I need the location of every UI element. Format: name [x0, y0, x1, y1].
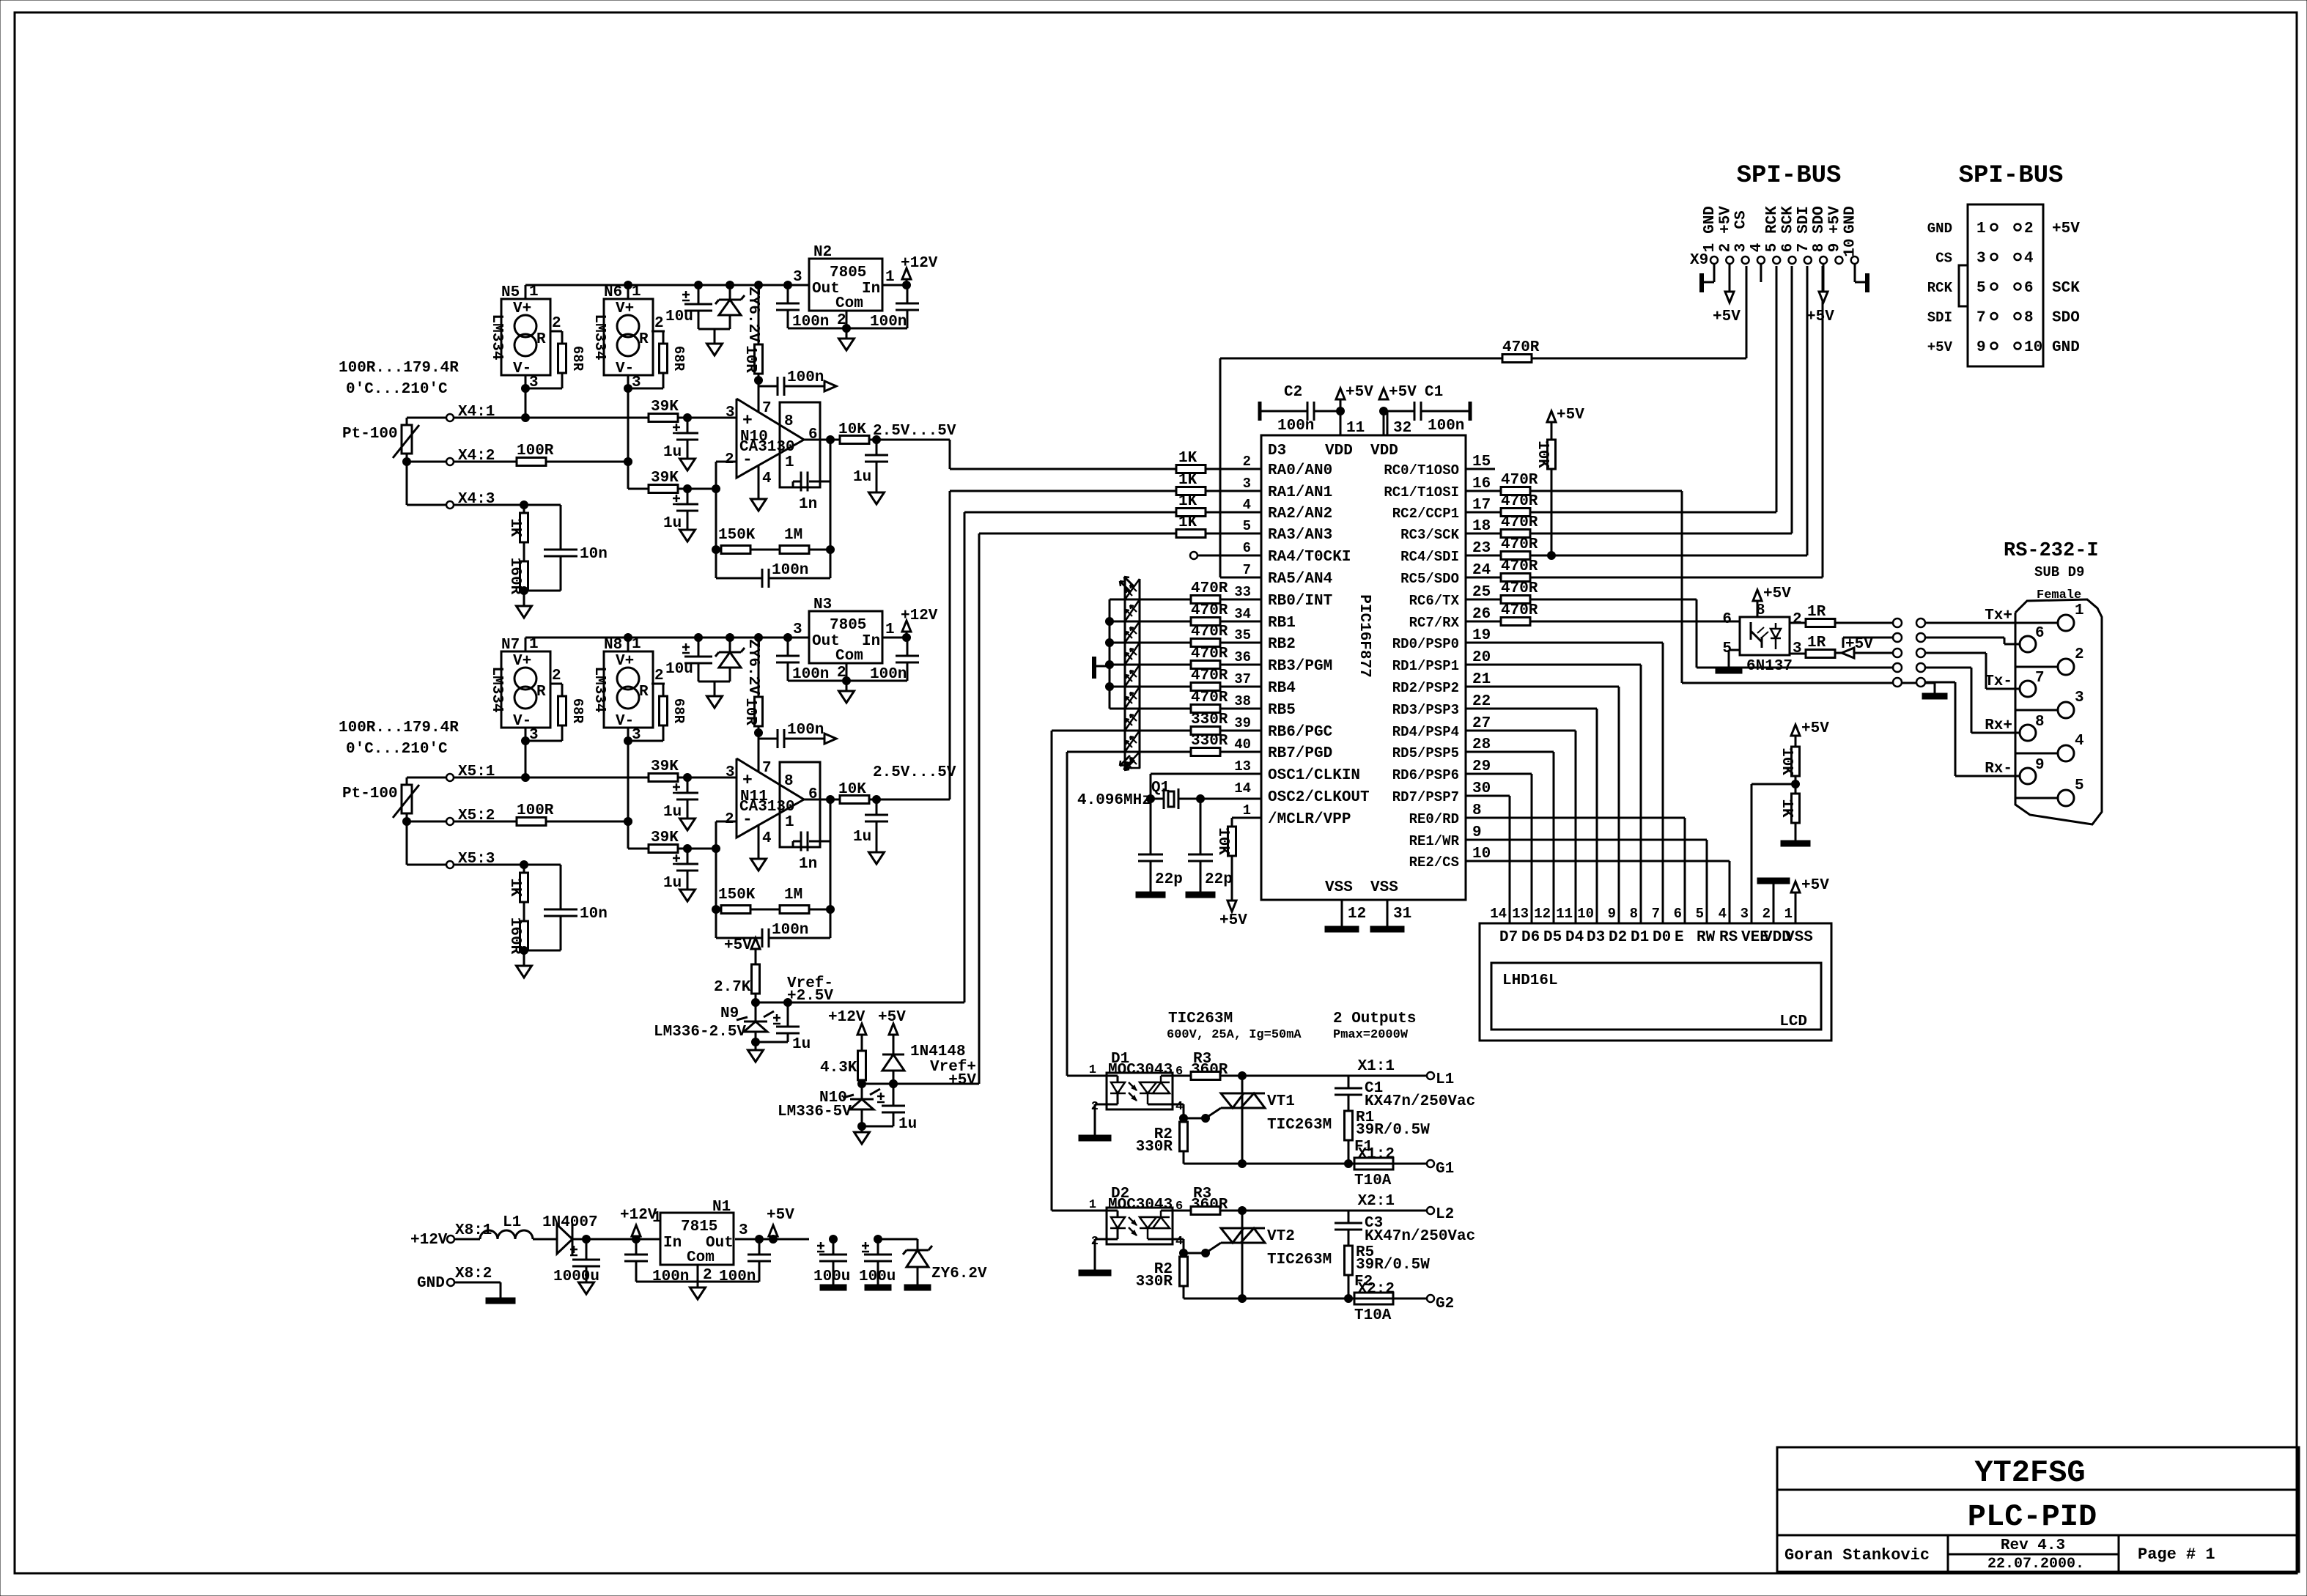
diode N10 LM336-5V: [850, 1098, 874, 1101]
svg-text:+: +: [742, 771, 753, 790]
capacitor 100u #2: [874, 1235, 882, 1244]
D2 light arrows: [1129, 1217, 1137, 1225]
power +5V down (X9 pin2): [1729, 264, 1731, 292]
svg-text:470R: 470R: [1501, 536, 1538, 553]
wire VEE: [1751, 784, 1753, 923]
terminal X1:2: [1427, 1160, 1434, 1167]
svg-text:R: R: [536, 684, 546, 701]
resistor 470R (RB5): [1191, 705, 1220, 713]
svg-text:5: 5: [1243, 518, 1251, 534]
ground: [579, 1282, 594, 1294]
D2 internal LED: [1107, 1210, 1118, 1212]
resistor 1K (RA2): [1176, 509, 1206, 517]
svg-text:TIC263M: TIC263M: [1168, 1011, 1233, 1027]
svg-text:L1: L1: [1436, 1071, 1454, 1088]
channel head X5: [525, 637, 907, 639]
svg-text:CS: CS: [1733, 210, 1750, 229]
svg-text:N9: N9: [720, 1005, 739, 1022]
resistor 2.7K: [752, 964, 760, 994]
ground bar (VDD pin2): [1773, 884, 1775, 923]
resistor 39K (+ input): [649, 774, 678, 782]
svg-text:6: 6: [2035, 625, 2045, 642]
svg-text:1: 1: [529, 284, 539, 300]
svg-text:SDI: SDI: [1927, 310, 1952, 326]
svg-text:8: 8: [2035, 714, 2045, 731]
svg-text:RB3/PGM: RB3/PGM: [1268, 658, 1332, 675]
svg-text:4: 4: [1243, 497, 1251, 513]
diode N9 LM336-2.5V: [744, 1021, 767, 1023]
svg-text:VSS: VSS: [1370, 879, 1398, 896]
svg-text:SCK: SCK: [2052, 280, 2080, 297]
ground (D1 pin2): [1095, 1104, 1107, 1106]
wire RC6 to RS232 jumper row4: [1530, 599, 1697, 601]
svg-text:+5V: +5V: [1826, 206, 1843, 234]
svg-text:L1: L1: [503, 1214, 521, 1231]
svg-text:11: 11: [1346, 420, 1365, 437]
svg-text:L2: L2: [1436, 1206, 1454, 1223]
capacitor C3 KX47n/250Vac: [1348, 1211, 1350, 1223]
svg-text:1: 1: [1702, 243, 1719, 253]
wire RC2 to SPI RCK: [1530, 511, 1776, 514]
svg-text:D6: D6: [1521, 929, 1540, 946]
svg-text:E: E: [1675, 929, 1684, 946]
op-amp N10 CA3130: [737, 399, 804, 478]
crystal Q1 4.096MHz: [1151, 773, 1261, 775]
svg-text:10n: 10n: [580, 906, 608, 923]
resistor 10K pullup (RC4): [1547, 411, 1556, 422]
svg-text:6: 6: [2024, 280, 2034, 297]
svg-text:7: 7: [762, 760, 772, 777]
svg-text:T10A: T10A: [1354, 1172, 1392, 1189]
svg-text:C2: C2: [1284, 384, 1302, 401]
svg-text:V+: V+: [616, 300, 634, 317]
terminal X4:1: [407, 417, 446, 419]
svg-text:14: 14: [1490, 906, 1507, 922]
bottom rail: [1184, 1298, 1354, 1300]
svg-text:R: R: [639, 331, 649, 348]
svg-text:+5V: +5V: [724, 937, 752, 954]
svg-text:+5V: +5V: [1713, 309, 1741, 325]
ic 6N137 optocoupler: [1740, 617, 1790, 655]
svg-text:GND: GND: [1927, 221, 1952, 237]
wire X5:1 row: [454, 777, 649, 779]
wire D2 pin4 to gate: [1173, 1238, 1184, 1241]
svg-text:470R: 470R: [1191, 668, 1228, 684]
svg-text:4.096MHz: 4.096MHz: [1077, 792, 1151, 809]
svg-text:SDO: SDO: [1811, 206, 1828, 234]
resistor 470R (RC5): [1466, 577, 1501, 579]
svg-text:1: 1: [1976, 221, 1986, 237]
svg-text:LM334: LM334: [488, 666, 505, 712]
svg-text:39K: 39K: [651, 758, 679, 775]
svg-text:RC4/SDI: RC4/SDI: [1400, 549, 1459, 565]
svg-text:8: 8: [1630, 906, 1638, 922]
svg-text:Com: Com: [835, 295, 863, 312]
pin X9:4: [1757, 256, 1765, 264]
pin X9:1: [1710, 256, 1718, 264]
svg-text:+12V: +12V: [901, 255, 938, 272]
wires RE0-RE2 to LCD: [1466, 817, 1685, 819]
resistor 470R (RC3): [1466, 533, 1501, 535]
svg-text:1K: 1K: [1178, 450, 1197, 467]
pin D9:8: [2020, 725, 2036, 741]
wire D1 pin4 to gate: [1173, 1104, 1184, 1106]
svg-text:3: 3: [1976, 251, 1986, 267]
pin D9:1: [2058, 615, 2074, 631]
terminal X5:1: [407, 777, 446, 779]
Pt-100 sensor: [406, 777, 408, 785]
svg-text:LM336-2.5V: LM336-2.5V: [654, 1024, 746, 1041]
resistor 470R (RC2): [1466, 511, 1501, 514]
svg-text:6N137: 6N137: [1746, 658, 1793, 675]
svg-text:Rx-: Rx-: [1985, 761, 2012, 777]
LM334 N7 pin3 wire: [525, 741, 527, 777]
svg-text:8: 8: [2024, 310, 2034, 327]
resistor 1K (RA1): [1176, 487, 1206, 495]
svg-text:D0: D0: [1653, 929, 1671, 946]
svg-text:10u: 10u: [665, 661, 693, 678]
pin 12 VSS stub + ground: [1341, 900, 1343, 926]
svg-text:2: 2: [654, 668, 664, 684]
svg-text:RD6/PSP6: RD6/PSP6: [1392, 767, 1459, 783]
svg-text:PIC16F877: PIC16F877: [1356, 594, 1373, 677]
D1 internal triac: [1140, 1082, 1170, 1084]
svg-text:1u: 1u: [792, 1036, 811, 1053]
wires RD0-RD7 to LCD: [1466, 642, 1663, 644]
svg-text:D3: D3: [1268, 443, 1286, 459]
svg-text:RA3/AN3: RA3/AN3: [1268, 527, 1332, 544]
svg-text:KX47n/250Vac: KX47n/250Vac: [1365, 1093, 1475, 1110]
svg-text:1: 1: [2075, 602, 2084, 619]
svg-text:7805: 7805: [830, 265, 866, 281]
svg-text:39K: 39K: [651, 399, 679, 415]
svg-text:2.7K: 2.7K: [714, 979, 751, 996]
svg-text:10: 10: [2024, 339, 2042, 356]
svg-text:Tx-: Tx-: [1985, 673, 2012, 690]
resistor 1K (RA3): [1176, 530, 1206, 538]
svg-text:D4: D4: [1565, 929, 1584, 946]
svg-text:+12V: +12V: [828, 1009, 865, 1026]
power +5V arrow (pin32): [1379, 388, 1388, 399]
wire X4:1 row: [454, 417, 649, 419]
svg-text:4: 4: [1749, 243, 1765, 253]
svg-text:In: In: [663, 1235, 682, 1252]
svg-text:X1:2: X1:2: [1358, 1146, 1395, 1163]
svg-text:1R: 1R: [1807, 604, 1826, 621]
svg-text:10n: 10n: [580, 546, 608, 563]
svg-text:RB2: RB2: [1268, 636, 1296, 653]
svg-text:10K: 10K: [838, 781, 866, 798]
ground: [523, 950, 525, 966]
svg-text:1u: 1u: [853, 469, 871, 486]
svg-text:11: 11: [1556, 906, 1573, 922]
svg-text:RS: RS: [1719, 929, 1738, 946]
pin D9:5: [2058, 790, 2074, 806]
wire RC4 to SPI SDI: [1530, 555, 1807, 557]
svg-text:RD3/PSP3: RD3/PSP3: [1392, 702, 1459, 718]
svg-text:RA0/AN0: RA0/AN0: [1268, 462, 1332, 479]
svg-text:470R: 470R: [1191, 602, 1228, 619]
svg-text:ZY6.2V: ZY6.2V: [931, 1266, 987, 1282]
LED chain common rail: [1109, 599, 1111, 709]
capacitor C1 KX47n/250Vac: [1348, 1076, 1350, 1088]
resistor 100R: [454, 461, 517, 463]
svg-text:68R: 68R: [671, 698, 687, 724]
ground: [861, 1126, 863, 1132]
svg-text:100n: 100n: [792, 314, 829, 330]
svg-text:+5V: +5V: [767, 1207, 794, 1224]
svg-text:7: 7: [762, 400, 772, 417]
svg-text:2: 2: [1717, 243, 1734, 253]
svg-text:4: 4: [762, 830, 772, 847]
svg-text:7: 7: [1652, 906, 1660, 922]
wire RC5 to SPI SDO: [1530, 577, 1823, 579]
svg-text:RE2/CS: RE2/CS: [1409, 854, 1459, 871]
svg-text:470R: 470R: [1191, 624, 1228, 640]
svg-text:68R: 68R: [569, 346, 586, 372]
svg-text:CA3130: CA3130: [739, 439, 795, 456]
capacitor 100u #1: [830, 1235, 838, 1244]
connector SUB D9 outline: [2015, 599, 2102, 824]
ground tap (X9 pin1): [1713, 264, 1716, 282]
svg-text:100n: 100n: [792, 666, 829, 683]
svg-text:100n: 100n: [772, 922, 808, 939]
svg-text:RB7/PGD: RB7/PGD: [1268, 745, 1332, 762]
svg-text:22p: 22p: [1155, 871, 1183, 888]
svg-text:RD4/PSP4: RD4/PSP4: [1392, 724, 1459, 740]
pin D9:6: [2020, 636, 2036, 652]
resistor 1R #2: [1790, 653, 1806, 655]
svg-text:RW: RW: [1697, 929, 1716, 946]
svg-text:Pmax=2000W: Pmax=2000W: [1333, 1028, 1409, 1042]
ground (D2 pin2): [1095, 1238, 1107, 1241]
svg-text:Page # 1: Page # 1: [2138, 1545, 2215, 1564]
jumper pairs: [1893, 618, 1902, 627]
resistor 470R (RC1): [1466, 490, 1501, 492]
svg-text:7: 7: [2035, 670, 2045, 687]
svg-text:LM334: LM334: [591, 666, 608, 712]
svg-text:7: 7: [1976, 310, 1986, 327]
resistor 39K (+ input): [649, 414, 678, 422]
svg-text:4.3K: 4.3K: [820, 1060, 857, 1076]
svg-text:13: 13: [1234, 758, 1251, 775]
op-amp supply pin7 wire: [758, 380, 760, 412]
regulator N1 7815: [660, 1213, 734, 1265]
svg-text:330R: 330R: [1191, 712, 1228, 728]
wire D2 pin1: [1052, 1210, 1107, 1212]
svg-text:1K: 1K: [1178, 493, 1197, 510]
svg-text:RC0/T1OSO: RC0/T1OSO: [1384, 462, 1459, 479]
svg-text:4: 4: [762, 470, 772, 487]
resistor 4.3K: [858, 1051, 866, 1080]
resistor 470R (RB3): [1191, 661, 1220, 669]
terminal X4:3: [407, 504, 446, 506]
triac VT1 TIC263M: [1241, 1076, 1244, 1164]
svg-text:330R: 330R: [1136, 1139, 1173, 1156]
pin D9:9: [2020, 768, 2036, 784]
svg-text:+5V: +5V: [1219, 912, 1247, 929]
svg-text:CS: CS: [1935, 251, 1952, 267]
svg-text:100n: 100n: [870, 314, 907, 330]
svg-text:N3: N3: [813, 596, 832, 613]
svg-text:SUB D9: SUB D9: [2034, 564, 2084, 580]
svg-text:1: 1: [785, 454, 794, 471]
svg-text:100n: 100n: [787, 369, 824, 386]
svg-text:9: 9: [1976, 339, 1986, 356]
svg-text:4: 4: [2024, 251, 2034, 267]
svg-text:1n: 1n: [799, 496, 817, 513]
svg-text:RCK: RCK: [1764, 206, 1781, 234]
svg-text:100n: 100n: [1277, 418, 1314, 435]
LED array: [1124, 579, 1126, 768]
pin D9:3: [2058, 702, 2074, 718]
svg-text:1K: 1K: [506, 878, 523, 897]
svg-text:In: In: [862, 281, 880, 298]
resistor 470R (RC4): [1466, 555, 1501, 557]
pin X9:6: [1789, 256, 1796, 264]
svg-text:330R: 330R: [1136, 1274, 1173, 1290]
svg-text:31: 31: [1393, 906, 1411, 923]
svg-text:470R: 470R: [1502, 339, 1540, 356]
svg-text:2: 2: [837, 312, 846, 329]
svg-text:1: 1: [885, 269, 895, 286]
svg-text:RA1/AN1: RA1/AN1: [1268, 484, 1332, 501]
pin D9:4: [2058, 745, 2074, 761]
svg-text:VDD: VDD: [1325, 443, 1353, 459]
svg-text:3: 3: [1733, 243, 1750, 253]
svg-text:5: 5: [2075, 777, 2084, 794]
svg-text:Tx+: Tx+: [1985, 607, 2012, 624]
svg-text:100u: 100u: [859, 1268, 896, 1285]
resistor 1R #1: [1790, 622, 1806, 624]
svg-text:100u: 100u: [813, 1268, 850, 1285]
svg-text:RA5/AN4: RA5/AN4: [1268, 571, 1332, 588]
svg-text:RCK: RCK: [1927, 280, 1953, 296]
svg-text:RD1/PSP1: RD1/PSP1: [1392, 658, 1459, 674]
resistor 470R (RB0): [1191, 596, 1220, 604]
svg-text:150K: 150K: [718, 887, 756, 904]
svg-text:10K: 10K: [1778, 747, 1795, 775]
svg-text:+5V: +5V: [1806, 309, 1834, 325]
svg-text:YT2FSG: YT2FSG: [1974, 1455, 2085, 1490]
ground tap (X9 pin10): [1854, 264, 1856, 282]
svg-text:14: 14: [1234, 780, 1251, 797]
svg-text:1K: 1K: [1178, 514, 1197, 531]
svg-text:1: 1: [529, 636, 539, 653]
svg-text:35: 35: [1234, 627, 1251, 643]
svg-text:3: 3: [726, 404, 735, 421]
svg-text:N2: N2: [813, 244, 832, 261]
svg-text:7: 7: [1795, 243, 1812, 253]
svg-text:SPI-BUS: SPI-BUS: [1737, 162, 1842, 190]
terminal X2:2: [1427, 1295, 1434, 1302]
svg-text:G1: G1: [1436, 1161, 1454, 1178]
capacitor 1000u: [586, 1239, 588, 1260]
svg-text:RB6/PGC: RB6/PGC: [1268, 724, 1333, 741]
capacitor 100n (7815 out): [758, 1239, 761, 1255]
capacitor 22p #2: [1200, 799, 1202, 854]
svg-text:1: 1: [1784, 906, 1793, 922]
resistor 1K divider: [523, 865, 525, 873]
svg-text:OSC2/CLKOUT: OSC2/CLKOUT: [1268, 789, 1370, 806]
svg-text:3: 3: [726, 764, 735, 781]
power +5V down (X9 pin9): [1823, 264, 1825, 292]
resistor divider 10K/1K (VEE): [1791, 725, 1800, 736]
resistor 1K (RA0): [1176, 465, 1206, 473]
capacitor C1 100n: [1380, 407, 1388, 415]
pin X9:2: [1726, 256, 1733, 264]
svg-text:VSS: VSS: [1325, 879, 1353, 896]
svg-text:6: 6: [1243, 540, 1251, 556]
svg-text:600V, 25A, Ig=50mA: 600V, 25A, Ig=50mA: [1167, 1028, 1302, 1042]
svg-text:T10A: T10A: [1354, 1307, 1392, 1324]
resistor 100R: [454, 821, 517, 823]
zener ZY6.2V (PSU): [878, 1238, 918, 1241]
wire RC7 to 6N137: [1530, 621, 1740, 623]
resistor R5 39R/0.5W: [1345, 1246, 1353, 1275]
svg-text:RC1/T1OSI: RC1/T1OSI: [1384, 484, 1459, 500]
svg-text:VDD: VDD: [1370, 443, 1398, 459]
svg-text:2: 2: [1793, 611, 1802, 628]
D2 internal triac: [1140, 1216, 1170, 1219]
svg-text:6: 6: [1722, 611, 1732, 628]
pin D9:2: [2058, 659, 2074, 675]
svg-text:68R: 68R: [569, 698, 586, 724]
D1 light arrows: [1129, 1082, 1137, 1090]
svg-text:0'C...210'C: 0'C...210'C: [346, 381, 448, 398]
LED chain tap bar: [1092, 657, 1096, 679]
svg-text:5: 5: [1696, 906, 1704, 922]
svg-text:100n: 100n: [870, 666, 907, 683]
svg-text:3: 3: [2075, 690, 2084, 706]
svg-text:X1:1: X1:1: [1358, 1058, 1395, 1075]
LM334 N5 pin3 wire: [525, 388, 527, 418]
svg-text:10: 10: [1577, 906, 1594, 922]
svg-text:4: 4: [1175, 1100, 1183, 1114]
svg-text:RC3/SCK: RC3/SCK: [1400, 527, 1459, 543]
capacitor 10n: [560, 865, 562, 909]
svg-text:100R...179.4R: 100R...179.4R: [339, 360, 459, 377]
svg-text:7815: 7815: [681, 1219, 717, 1235]
svg-text:4: 4: [1719, 906, 1727, 922]
svg-text:G2: G2: [1436, 1296, 1454, 1312]
svg-text:C1: C1: [1425, 384, 1443, 401]
svg-text:1u: 1u: [898, 1116, 917, 1133]
svg-text:In: In: [862, 633, 880, 650]
resistor 330R (RB6): [1191, 727, 1220, 735]
svg-text:CA3130: CA3130: [739, 799, 795, 816]
svg-text:1N4148: 1N4148: [910, 1043, 966, 1060]
svg-text:D1: D1: [1631, 929, 1649, 946]
wire X5:3 to divider: [454, 864, 561, 866]
ground (6N137 pin5): [1729, 649, 1740, 651]
terminal X5:3: [407, 864, 446, 866]
pin 11 VDD stub: [1340, 411, 1342, 435]
svg-text:Pt-100: Pt-100: [342, 426, 398, 443]
svg-text:X2:2: X2:2: [1358, 1281, 1395, 1298]
svg-text:32: 32: [1393, 420, 1411, 437]
svg-text:0'C...210'C: 0'C...210'C: [346, 741, 448, 758]
svg-text:SCK: SCK: [1780, 206, 1797, 234]
svg-text:100n: 100n: [772, 562, 808, 579]
svg-text:470R: 470R: [1191, 580, 1228, 597]
terminal RA4 open: [1190, 552, 1197, 559]
svg-text:12: 12: [1534, 906, 1551, 922]
svg-text:X9: X9: [1690, 252, 1708, 269]
svg-text:10K: 10K: [1214, 827, 1231, 855]
svg-text:GND: GND: [1702, 206, 1719, 234]
svg-text:4: 4: [1175, 1235, 1183, 1249]
